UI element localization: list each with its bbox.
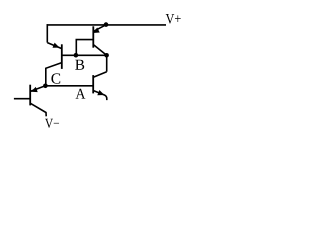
node V+ label [166,14,181,24]
transistor Q1 emitter arrow [31,87,38,92]
node A label [76,89,86,99]
transistor Q2 emitter wire [47,43,62,49]
transistor Q1 emitter wire [31,86,46,91]
node B label [75,60,84,70]
node C label [51,73,60,83]
transistor Q1 collector wire [30,103,46,116]
transistor Q4 emitter arrow [97,90,104,95]
node C dot [43,84,48,89]
node B dot [74,53,79,58]
transistor Q3 collector wire [94,45,107,55]
transistor Q4 collector wire [94,72,107,77]
transistor Q2 bar [61,44,63,69]
transistor Q3 emitter arrow [93,28,100,34]
wire B net base line [62,54,107,56]
node V+ rail dot [104,22,109,27]
transistor Q1 bar [29,85,31,106]
transistor Q4 emitter wire [94,91,107,101]
transistor Q4 bar [92,75,94,93]
transistor Q2 emitter arrow [53,43,60,48]
wire right drop [106,55,108,71]
transistor Q2 collector wire [46,63,62,86]
node V- label [45,119,59,128]
wire left drop from rail [46,24,48,42]
transistor Q3 emitter wire [94,25,107,32]
transistor Q1 base wire [14,98,30,100]
wire C net line to Q4 base [45,85,93,87]
node right dot [104,53,109,58]
wire V+ rail [47,24,167,26]
transistor Q3 bar [92,26,94,47]
wire B riser to Q3 base [76,40,93,56]
